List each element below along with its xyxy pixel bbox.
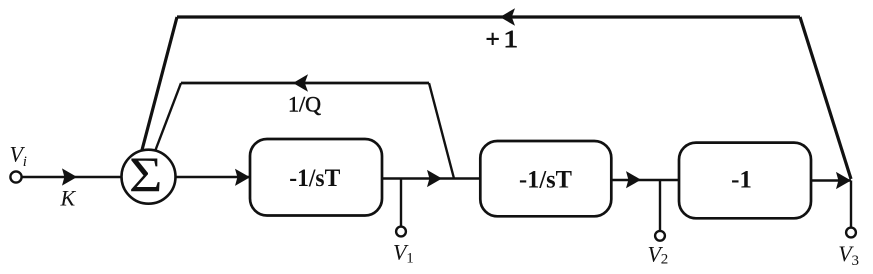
- svg-text:+: +: [486, 26, 500, 53]
- svg-text:-1: -1: [731, 167, 752, 194]
- svg-text:Σ: Σ: [129, 147, 163, 203]
- svg-text:K: K: [60, 186, 77, 211]
- svg-text:1: 1: [504, 26, 519, 53]
- svg-text:1/Q: 1/Q: [288, 92, 321, 117]
- svg-text:1: 1: [406, 251, 414, 267]
- svg-text:-1/sT: -1/sT: [519, 166, 572, 193]
- svg-text:i: i: [23, 154, 27, 170]
- svg-text:2: 2: [661, 252, 669, 268]
- svg-text:-1/sT: -1/sT: [289, 165, 340, 192]
- svg-text:3: 3: [852, 253, 860, 269]
